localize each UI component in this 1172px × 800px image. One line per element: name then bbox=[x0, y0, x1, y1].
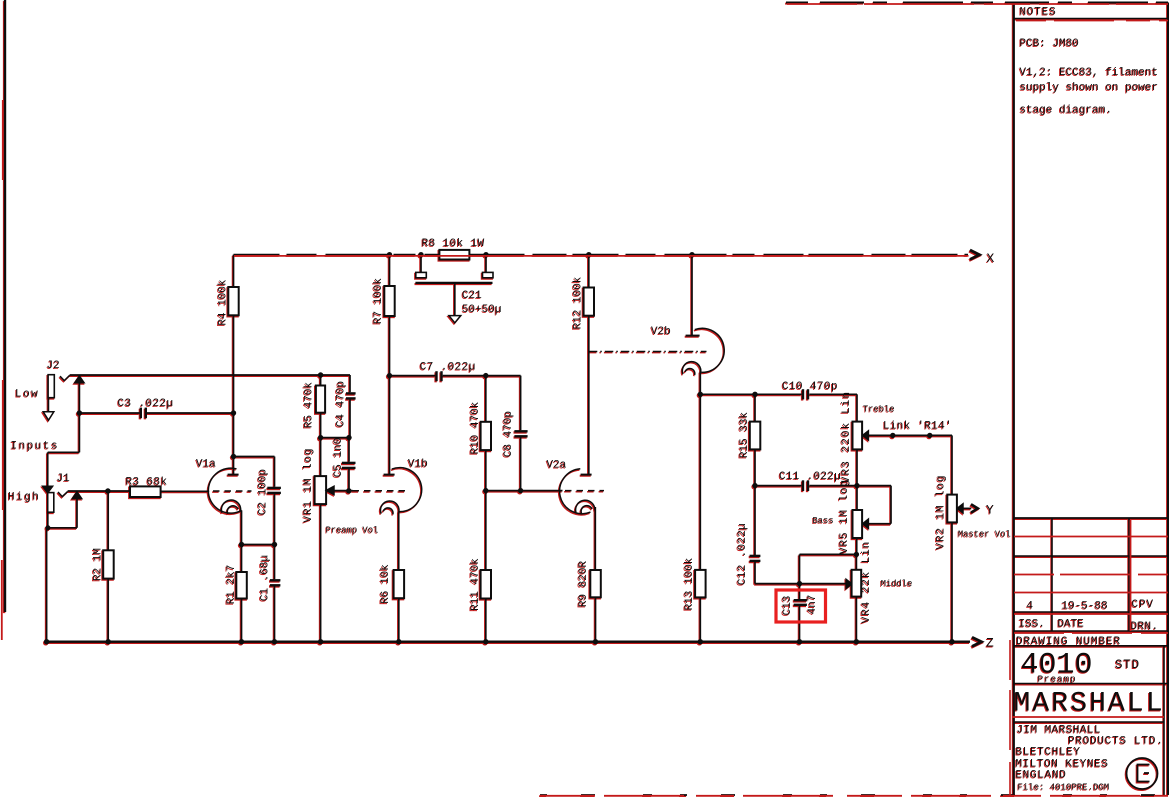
highlight box around C13 bbox=[776, 590, 826, 622]
